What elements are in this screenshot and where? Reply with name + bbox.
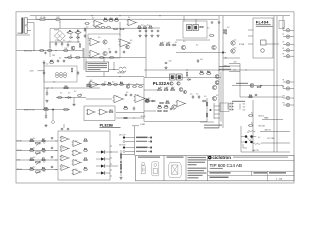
wire dc node	[50, 41, 80, 43]
capacitor C4	[55, 42, 57, 46]
connector P4	[283, 49, 290, 52]
label ref row 2	[219, 69, 231, 70]
wire	[148, 141, 150, 143]
wire	[116, 112, 144, 114]
node	[55, 150, 56, 151]
label terminal	[136, 141, 147, 142]
resistor R45	[164, 107, 169, 109]
svg-text:R77: R77	[84, 167, 87, 169]
enclosure drive box	[183, 21, 207, 38]
svg-text:1k2: 1k2	[141, 25, 143, 27]
resistor R19	[95, 27, 100, 29]
wire	[121, 153, 135, 155]
wire	[229, 71, 240, 73]
svg-text:1k2: 1k2	[147, 25, 149, 27]
resistor R2	[39, 50, 44, 52]
wire	[290, 104, 294, 106]
potentiometer P4	[36, 171, 41, 174]
svg-text:PONTE: PONTE	[54, 29, 59, 31]
svg-text:1k2: 1k2	[77, 30, 79, 32]
wire	[103, 58, 105, 63]
node	[55, 50, 56, 51]
wire gnd return	[64, 57, 146, 59]
ground	[144, 34, 147, 37]
wire rail mid	[145, 28, 147, 78]
resistor R25	[49, 62, 54, 64]
relay K1	[170, 74, 183, 80]
svg-text:1k2: 1k2	[247, 132, 249, 134]
capacitor C35	[51, 147, 53, 150]
node	[55, 169, 56, 170]
label note	[204, 125, 222, 126]
svg-text:P4: P4	[283, 42, 285, 44]
node	[55, 159, 56, 160]
wire	[262, 119, 283, 121]
resistor R51	[166, 44, 171, 46]
title block frame	[136, 156, 295, 181]
node	[222, 69, 223, 70]
wire	[290, 29, 294, 31]
op-amp U1	[93, 20, 104, 27]
note text line	[88, 63, 108, 64]
svg-text:P3: P3	[283, 34, 285, 36]
resistor R23	[120, 28, 125, 30]
wire	[144, 98, 145, 100]
ic aux box	[279, 21, 285, 29]
resistor R64	[123, 108, 128, 110]
wire	[33, 23, 35, 51]
op-amp U7	[113, 95, 125, 103]
resistor R14	[109, 20, 114, 22]
enclosure transformer box	[44, 66, 77, 82]
svg-text:R73: R73	[42, 167, 45, 169]
label subtitle amplifier	[210, 168, 223, 169]
connector P7	[283, 87, 290, 90]
svg-text:C44: C44	[200, 59, 203, 61]
svg-text:TH1: TH1	[65, 48, 68, 50]
resistor R40	[206, 73, 211, 75]
wire	[73, 98, 75, 104]
capacitor C6	[67, 43, 69, 47]
wire	[48, 19, 55, 21]
resistor R8	[63, 50, 68, 52]
capacitor C3	[84, 34, 86, 38]
label VISAO SUPERIOR	[167, 157, 184, 158]
enclosure PL323B box	[84, 106, 115, 121]
node	[260, 85, 262, 87]
transistor Q15	[52, 121, 55, 124]
wire	[86, 76, 144, 78]
svg-text:P5: P5	[283, 48, 285, 50]
wire	[110, 165, 118, 167]
wire	[46, 88, 48, 93]
label note	[204, 127, 219, 128]
resistor R3	[47, 50, 52, 52]
svg-text:FL494: FL494	[256, 20, 269, 25]
enclosure channel box	[58, 131, 110, 180]
note text line	[188, 177, 199, 178]
transistor Q9	[177, 82, 180, 85]
resistor R16	[137, 27, 142, 29]
wire	[38, 70, 45, 72]
wire	[200, 121, 214, 123]
resistor R69	[41, 150, 45, 152]
wire stub	[214, 113, 220, 115]
svg-text:1k2: 1k2	[46, 63, 48, 65]
terminal lug	[150, 151, 152, 153]
fuse F1	[40, 19, 48, 21]
wire rail A	[218, 16, 220, 128]
svg-text:-B DRV: -B DRV	[140, 124, 145, 126]
transistor Q3	[126, 45, 130, 49]
op-amp U5	[119, 39, 132, 47]
wire	[223, 65, 240, 67]
op-amp U6	[89, 81, 100, 88]
op-amp U16	[72, 141, 82, 147]
connector P5	[283, 55, 290, 58]
capacitor C12	[115, 51, 117, 54]
resistor R emitter zigzag 2	[253, 143, 260, 145]
note text line	[188, 159, 207, 160]
resistor R48	[209, 35, 214, 37]
capacitor C11	[109, 51, 111, 54]
resistor R27	[86, 85, 92, 87]
title block dividers	[164, 156, 208, 181]
note text line	[188, 172, 207, 173]
wire	[45, 110, 47, 117]
wire remote	[16, 109, 70, 111]
transistor Q5	[145, 99, 149, 103]
wire	[252, 100, 254, 152]
node	[120, 161, 122, 163]
connector P6	[283, 80, 290, 83]
note text line	[88, 67, 108, 68]
label terminal	[136, 137, 148, 139]
wire stub	[110, 169, 112, 171]
wire	[144, 110, 156, 112]
resistor R21	[106, 27, 111, 29]
drawing plug top view	[168, 163, 181, 178]
wire	[113, 62, 115, 70]
op-amp U19	[72, 169, 82, 175]
svg-text:1k2: 1k2	[175, 42, 177, 44]
wire channel input	[16, 140, 58, 142]
wire bias chain	[120, 150, 122, 176]
wire	[61, 19, 86, 21]
wire	[290, 49, 294, 51]
svg-text:TIP 600 C14 AB: TIP 600 C14 AB	[210, 163, 242, 168]
wire	[144, 89, 158, 91]
wire	[125, 141, 135, 143]
resistor R72	[29, 169, 34, 171]
svg-text:1k2: 1k2	[104, 82, 106, 84]
note text line	[188, 170, 205, 171]
svg-text:D5: D5	[70, 34, 72, 36]
ground	[138, 34, 141, 37]
wire	[27, 22, 34, 24]
opto LED	[101, 171, 104, 174]
resistor R22	[113, 28, 118, 30]
node	[33, 50, 34, 51]
potentiometer P1	[36, 142, 41, 145]
svg-text:1k2: 1k2	[108, 49, 110, 51]
wire stub	[214, 105, 220, 107]
wire	[96, 158, 101, 160]
diode D7	[172, 44, 177, 46]
label PL323B subtitle	[100, 126, 121, 129]
svg-text:1k2: 1k2	[62, 157, 64, 159]
svg-text:R60: R60	[166, 101, 169, 103]
svg-text:1k2: 1k2	[116, 96, 118, 98]
svg-text:R30: R30	[44, 107, 47, 109]
svg-text:1k2: 1k2	[130, 40, 132, 42]
node	[218, 69, 219, 70]
label circuito	[210, 172, 231, 173]
resistor R55	[248, 115, 253, 117]
svg-text:1k2: 1k2	[43, 142, 45, 144]
op-amp U18	[72, 160, 82, 166]
wire	[77, 34, 79, 43]
svg-text:1k2: 1k2	[148, 98, 150, 100]
op-amp U17	[72, 150, 82, 156]
transistor Q2	[103, 51, 107, 55]
wire	[148, 137, 150, 139]
svg-text:1k2: 1k2	[33, 157, 35, 159]
svg-text:1k2: 1k2	[168, 42, 170, 44]
label bias row	[236, 83, 248, 84]
wire	[86, 84, 144, 86]
svg-text:P8: P8	[283, 79, 285, 81]
capacitor C32	[170, 108, 172, 111]
transformer T2	[119, 67, 126, 72]
svg-text:1k2: 1k2	[128, 83, 130, 85]
capacitor C15	[77, 71, 79, 75]
svg-text:1k2: 1k2	[200, 71, 202, 73]
wire	[52, 110, 54, 121]
capacitor C8	[145, 30, 147, 33]
label ref row	[219, 66, 230, 67]
wire	[176, 52, 226, 54]
svg-text:1k2: 1k2	[65, 58, 67, 60]
wire	[103, 72, 105, 77]
svg-text:R68: R68	[30, 148, 33, 150]
wire stub	[214, 109, 220, 111]
svg-text:1k2: 1k2	[51, 60, 53, 62]
enclosure PL322A box	[144, 72, 221, 122]
svg-text:1k2: 1k2	[234, 40, 236, 42]
resistor R49	[223, 29, 225, 34]
node	[67, 32, 68, 33]
resistor R47	[199, 26, 204, 28]
wire	[35, 16, 37, 20]
wire	[229, 63, 240, 65]
wire	[105, 151, 110, 153]
capacitor C2	[84, 28, 86, 32]
node	[61, 41, 62, 42]
node	[91, 15, 92, 16]
power transistor Q20 junction dots	[245, 135, 253, 143]
title block divider h3	[208, 175, 295, 177]
title block divider h1	[208, 159, 295, 161]
wire stub	[110, 151, 112, 153]
svg-text:1k2: 1k2	[216, 95, 218, 97]
opto LED	[101, 164, 104, 167]
diode D1	[69, 37, 73, 39]
transistor Q10	[212, 85, 216, 89]
wire	[119, 22, 121, 36]
capacitor C24	[211, 21, 213, 24]
svg-text:R81 0R22: R81 0R22	[259, 125, 266, 127]
resistor R50	[159, 44, 164, 46]
node	[47, 87, 48, 88]
svg-text:1k2: 1k2	[183, 41, 185, 43]
svg-text:1k2: 1k2	[160, 87, 162, 89]
svg-text:PL322A: PL322A	[153, 81, 170, 86]
node	[119, 76, 120, 77]
svg-text:1k2: 1k2	[69, 41, 71, 43]
wire	[290, 81, 294, 83]
wire	[144, 100, 156, 102]
connector P1	[283, 29, 290, 32]
resistor R62	[163, 110, 168, 112]
connector J1 mains inlet	[22, 18, 28, 33]
transistor Q20	[250, 84, 254, 88]
wire	[148, 147, 150, 149]
diode D33	[123, 151, 125, 153]
svg-text:1k2: 1k2	[172, 87, 174, 89]
svg-text:P11: P11	[283, 102, 285, 104]
transistor Q15	[181, 45, 185, 49]
wire	[232, 85, 283, 87]
wire	[86, 98, 112, 100]
svg-text:1k2: 1k2	[33, 167, 35, 169]
wire	[44, 87, 100, 89]
transistor Q6	[215, 75, 219, 79]
resistor R61	[157, 110, 162, 112]
node	[245, 69, 246, 70]
wire	[282, 16, 284, 31]
svg-text:R44: R44	[158, 104, 161, 107]
wire	[96, 172, 101, 174]
svg-text:LED SGN: LED SGN	[119, 144, 125, 146]
node	[120, 171, 122, 173]
svg-text:R54: R54	[249, 94, 252, 97]
enclosure preamp box	[88, 34, 120, 58]
svg-text:1k2: 1k2	[57, 40, 59, 42]
capacitor C21	[130, 94, 132, 97]
wire	[96, 165, 101, 167]
wire	[290, 55, 294, 57]
wire	[105, 165, 110, 167]
svg-text:R69: R69	[42, 148, 45, 150]
wire long mid rail	[144, 69, 274, 71]
wire -rail out	[241, 151, 290, 153]
node	[51, 87, 52, 88]
resistor R31	[63, 109, 69, 111]
svg-text:1k2: 1k2	[207, 28, 209, 30]
ground	[72, 103, 75, 106]
label industria eletronica ltda	[233, 157, 288, 158]
bridge rectifier D1-D4	[54, 30, 65, 41]
svg-text:R4: R4	[69, 29, 71, 32]
wire pin stub	[248, 35, 253, 37]
svg-text:1k2: 1k2	[258, 137, 260, 139]
node	[75, 32, 76, 33]
diode D8	[43, 60, 45, 66]
wire	[227, 104, 229, 110]
svg-text:1k2: 1k2	[120, 82, 122, 84]
wire pin stub	[248, 29, 253, 31]
wire	[290, 43, 294, 45]
wire aux bus	[36, 18, 218, 20]
node	[84, 28, 85, 29]
svg-text:1k2: 1k2	[43, 152, 45, 154]
resistor R39	[199, 73, 204, 75]
logo ciclotron	[208, 155, 231, 160]
connector P3	[283, 43, 290, 46]
svg-text:R76: R76	[84, 158, 87, 160]
svg-text:LED CLIP: LED CLIP	[119, 134, 125, 136]
svg-text:1k2: 1k2	[136, 84, 138, 86]
transistor Q16	[212, 45, 216, 49]
wire	[59, 22, 61, 29]
wire	[125, 137, 135, 139]
capacitor C36	[51, 156, 53, 159]
svg-text:1k2: 1k2	[116, 18, 118, 20]
capacitor C30	[229, 105, 233, 107]
note text line	[88, 65, 108, 66]
wire +rail out	[260, 131, 290, 133]
resistor R34	[113, 84, 118, 86]
wire rail B	[222, 16, 224, 128]
node	[52, 109, 53, 110]
wire	[282, 97, 284, 98]
svg-text:1k2: 1k2	[80, 94, 82, 96]
resistor R66	[29, 140, 34, 142]
capacitor C19	[45, 114, 47, 118]
node	[113, 69, 114, 70]
resistor R7	[75, 57, 80, 59]
resistor R10	[109, 57, 114, 59]
wire	[125, 151, 135, 153]
op-amp U9	[176, 100, 187, 107]
svg-text:1k2: 1k2	[53, 81, 55, 83]
svg-text:1k2: 1k2	[196, 45, 198, 47]
capacitor C13	[123, 51, 125, 54]
ic U10 internals	[261, 40, 267, 52]
node	[65, 97, 66, 98]
capacitor C5	[61, 42, 63, 46]
wire	[239, 64, 241, 98]
svg-text:R64: R64	[124, 105, 127, 108]
wire	[206, 98, 208, 122]
svg-text:1k2: 1k2	[86, 27, 88, 29]
op-amp U13	[60, 146, 70, 152]
wire	[109, 69, 119, 71]
op-amp U11	[98, 109, 108, 115]
resistor R59	[159, 102, 164, 104]
svg-text:1k2: 1k2	[90, 80, 92, 82]
resistor R60	[165, 102, 170, 104]
diode D4	[187, 79, 191, 81]
node	[67, 41, 68, 42]
resistor R58	[206, 113, 208, 118]
wire stub	[214, 117, 220, 119]
note text line	[188, 164, 197, 165]
capacitor C1	[45, 52, 47, 55]
svg-text:1k2: 1k2	[88, 38, 90, 40]
svg-text:1k2: 1k2	[234, 48, 236, 50]
